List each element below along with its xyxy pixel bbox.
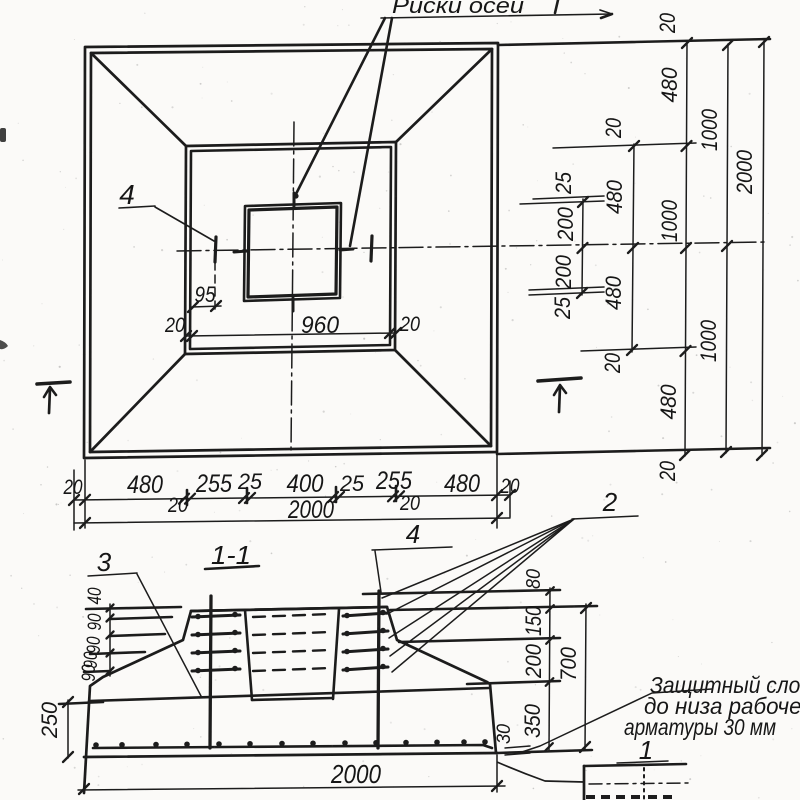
bottom chain ext left outer bbox=[73, 470, 75, 530]
svg-text:3: 3 bbox=[97, 547, 112, 577]
chain V1 ticks bbox=[578, 197, 588, 207]
detail 1 top line bbox=[584, 764, 686, 766]
svg-text:4: 4 bbox=[119, 179, 135, 210]
rebar row left 3 bbox=[192, 651, 240, 653]
label 2 underline bbox=[572, 516, 638, 519]
leader to top axis tick bbox=[296, 18, 385, 194]
plan diagonal top-left bbox=[91, 53, 186, 146]
svg-text:20: 20 bbox=[655, 12, 680, 33]
svg-text:4: 4 bbox=[406, 519, 420, 549]
plan diagonal bottom-left bbox=[90, 354, 185, 452]
anchor box right tick bbox=[340, 249, 353, 250]
label 2 leader 1 bbox=[382, 519, 574, 598]
rebar vertical left bbox=[210, 596, 211, 748]
svg-text:150: 150 bbox=[521, 605, 546, 636]
rebar row right 3 bbox=[343, 649, 388, 652]
ext pair y199 b bbox=[533, 196, 604, 199]
section arrow right stem bbox=[559, 386, 560, 412]
dim 95 line bbox=[192, 306, 221, 307]
svg-text:700: 700 bbox=[556, 646, 581, 681]
label 2 leader 4 bbox=[390, 519, 574, 656]
ext pair y199 a bbox=[520, 201, 604, 204]
ext line y351 bbox=[581, 347, 696, 351]
slab top line bbox=[89, 688, 489, 701]
scan speckle bbox=[510, 21, 511, 22]
svg-text:480: 480 bbox=[601, 275, 626, 310]
rebar row left 1 bbox=[192, 615, 240, 617]
edge artefact a bbox=[0, 128, 6, 142]
sec ext y609 bbox=[390, 606, 597, 610]
slab rebar line bbox=[93, 745, 492, 748]
dim 960 ticks bbox=[181, 331, 191, 341]
svg-text:480: 480 bbox=[127, 471, 163, 499]
dim 250 line bbox=[67, 700, 69, 758]
label 2 leader 3 bbox=[389, 519, 574, 638]
leader to right axis tick bbox=[350, 18, 392, 246]
section body top edge bbox=[191, 607, 387, 611]
axis mark right (4) bbox=[371, 236, 372, 261]
bottom chain ext right corner bbox=[496, 453, 498, 528]
detail 1 axis dash-dot bbox=[589, 783, 690, 784]
chain V1 line bbox=[582, 199, 583, 295]
svg-text:90: 90 bbox=[79, 664, 100, 681]
dim 960 line bbox=[186, 333, 396, 336]
section title underline bbox=[205, 566, 259, 569]
sec left ext 635 bbox=[110, 634, 165, 636]
sec dim 2000 ticks bbox=[79, 784, 89, 794]
svg-text:480: 480 bbox=[656, 384, 681, 420]
dim 95 ticks bbox=[188, 302, 198, 312]
note leader bbox=[519, 689, 712, 753]
anchor box bottom tick bbox=[292, 298, 295, 311]
label 2 leader 2 bbox=[387, 519, 574, 614]
chain V5 line bbox=[762, 41, 764, 456]
label 1 underline bbox=[617, 761, 668, 763]
plan inner square outer line bbox=[185, 142, 396, 354]
bottom chain short guide a bbox=[186, 490, 189, 505]
svg-text:95: 95 bbox=[195, 282, 217, 307]
svg-text:480: 480 bbox=[657, 67, 682, 103]
svg-text:350: 350 bbox=[520, 703, 545, 738]
sec chain V6 bbox=[549, 588, 550, 750]
svg-text:90: 90 bbox=[84, 636, 105, 653]
sec left chain line bbox=[109, 604, 111, 676]
svg-text:25: 25 bbox=[237, 469, 263, 494]
cup bottom bbox=[252, 698, 333, 700]
section arrow left head bbox=[44, 387, 56, 397]
plan vertical centerline bbox=[291, 122, 294, 452]
section arrow left bar bbox=[37, 382, 70, 384]
rebar row right 1 bbox=[343, 613, 388, 616]
svg-text:480: 480 bbox=[602, 179, 627, 214]
rebar row right 4 bbox=[343, 667, 388, 670]
cup dashed row 3 bbox=[253, 650, 331, 653]
dim 95 extension dashed bbox=[214, 262, 216, 312]
label 2 leader 5 bbox=[392, 519, 574, 672]
bottom chain ext right outer bbox=[509, 481, 511, 517]
bottom chain short guide d bbox=[395, 486, 398, 501]
section arrow right bar bbox=[538, 378, 581, 381]
svg-text:40: 40 bbox=[85, 587, 106, 604]
ext bottom edge right bbox=[497, 448, 770, 454]
svg-text:255: 255 bbox=[195, 470, 232, 498]
svg-text:400: 400 bbox=[287, 470, 324, 498]
plan outer square outer line bbox=[84, 43, 498, 458]
dim 30 tick b bbox=[505, 753, 530, 755]
sec left ext 608 bbox=[86, 607, 181, 609]
bottom chain dim line bbox=[74, 495, 510, 500]
cup dashed row 1 bbox=[253, 614, 331, 617]
ext line y146 bbox=[553, 143, 696, 148]
detail 1 left edge bbox=[583, 766, 586, 800]
edge artefact b bbox=[0, 340, 8, 349]
label 4 leader bbox=[155, 207, 214, 241]
svg-text:960: 960 bbox=[301, 312, 340, 339]
sec ext y591 bbox=[363, 590, 560, 594]
label 3 underline bbox=[88, 573, 137, 576]
bottom chain short guide b bbox=[246, 488, 249, 503]
svg-text:20: 20 bbox=[167, 494, 188, 517]
ext pair y293 b bbox=[529, 287, 604, 290]
sec left ext 618 bbox=[110, 617, 172, 619]
chain V4 line bbox=[726, 44, 728, 453]
label 4 section underline bbox=[372, 547, 452, 550]
svg-text:250: 250 bbox=[37, 701, 62, 739]
plan inner square inner line bbox=[190, 147, 391, 349]
sec left chain ticks bbox=[107, 605, 114, 612]
svg-text:2000: 2000 bbox=[330, 759, 381, 789]
plan diagonal bottom-right bbox=[395, 350, 491, 446]
sec V6 ticks bbox=[546, 587, 554, 595]
plan outer square inner line bbox=[90, 49, 492, 452]
svg-text:2000: 2000 bbox=[732, 149, 757, 195]
anchor box top tick bbox=[293, 193, 296, 206]
ext top edge right bbox=[498, 39, 770, 45]
label 4 underline bbox=[119, 206, 155, 208]
detail 1 dotted vertical bbox=[643, 768, 645, 800]
dim 2000 line plan bbox=[74, 518, 510, 523]
cup dashed row 2 bbox=[253, 632, 331, 635]
bottom chain ticks bbox=[69, 495, 79, 505]
svg-text:200: 200 bbox=[551, 254, 576, 290]
sec dim 2000 line bbox=[78, 786, 505, 790]
svg-text:2: 2 bbox=[602, 487, 618, 517]
sec V7 ticks bbox=[581, 603, 591, 613]
svg-text:25: 25 bbox=[551, 171, 576, 195]
rebar row right 2 bbox=[343, 631, 388, 634]
anchor box left tick bbox=[234, 251, 247, 252]
dim 250 ticks bbox=[63, 697, 73, 707]
plan diagonal top-right bbox=[396, 49, 492, 142]
svg-text:255: 255 bbox=[375, 467, 412, 495]
slab bottom line bbox=[84, 753, 497, 757]
detail 1 slab underside line bbox=[497, 762, 584, 782]
section arrow right head bbox=[554, 385, 566, 395]
svg-text:30: 30 bbox=[494, 724, 515, 744]
bottom chain short guide c bbox=[335, 487, 338, 502]
cup left wall bbox=[245, 610, 252, 700]
svg-text:200: 200 bbox=[521, 643, 546, 679]
rebar row left 4 bbox=[192, 669, 240, 671]
svg-text:480: 480 bbox=[444, 470, 480, 498]
svg-text:1000: 1000 bbox=[697, 108, 722, 151]
cup right wall bbox=[333, 609, 339, 699]
leader end dot bbox=[293, 193, 298, 198]
section arrow left stem bbox=[49, 388, 50, 413]
cup dashed row 4 bbox=[253, 668, 331, 671]
svg-text:25: 25 bbox=[550, 296, 575, 320]
svg-text:20: 20 bbox=[655, 460, 680, 481]
rebar row left 2 bbox=[192, 633, 240, 635]
svg-text:20: 20 bbox=[63, 476, 83, 499]
sec left ext 671 bbox=[84, 671, 110, 672]
bottom chain ext left corner bbox=[84, 460, 86, 528]
chain V5 ticks bbox=[759, 37, 769, 47]
leader underline with arrow bbox=[381, 14, 612, 18]
detail 1 hatch dashes bbox=[586, 795, 595, 799]
sec left ext 653 bbox=[90, 652, 145, 654]
svg-text:1: 1 bbox=[639, 735, 653, 765]
ext pair y293 a bbox=[529, 292, 604, 295]
axis mark left (4) bbox=[215, 237, 216, 262]
svg-text:80: 80 bbox=[523, 569, 545, 589]
svg-text:1000: 1000 bbox=[657, 199, 682, 242]
sec ext 2000 right bbox=[496, 755, 498, 792]
dim 2000 plan ticks bbox=[80, 518, 90, 528]
sec ext y640 bbox=[399, 638, 560, 642]
rebar vertical right bbox=[378, 591, 379, 748]
sec chain V7 bbox=[585, 604, 586, 750]
slab bottom ext right bbox=[497, 750, 592, 753]
svg-text:20: 20 bbox=[164, 314, 185, 337]
sec ext y682 bbox=[467, 681, 560, 684]
anchor box inner thick line bbox=[248, 207, 337, 297]
section body outline bbox=[84, 607, 496, 793]
leader stroke at top bbox=[555, 0, 558, 13]
svg-text:20: 20 bbox=[500, 475, 520, 498]
label 4 section leader bbox=[375, 551, 381, 592]
chain V2 line bbox=[632, 144, 634, 352]
plan horizontal centerline bbox=[177, 242, 768, 251]
dim 30 tick a bbox=[505, 746, 530, 748]
svg-text:2000: 2000 bbox=[287, 496, 334, 524]
svg-text:20: 20 bbox=[600, 352, 625, 373]
svg-text:20: 20 bbox=[601, 117, 626, 138]
chain V3 line bbox=[685, 42, 687, 456]
svg-text:1000: 1000 bbox=[696, 319, 721, 362]
chain V3 ticks bbox=[682, 38, 692, 48]
svg-text:20: 20 bbox=[399, 313, 420, 336]
dim 250 ext bbox=[59, 702, 103, 704]
svg-text:20: 20 bbox=[399, 492, 420, 515]
svg-text:25: 25 bbox=[339, 471, 365, 496]
chain V2 ticks bbox=[629, 141, 639, 151]
chain V4 ticks bbox=[723, 40, 733, 50]
label 3 leader bbox=[137, 574, 201, 696]
slab rebar section dots bbox=[93, 742, 99, 748]
svg-text:90: 90 bbox=[85, 613, 106, 630]
svg-text:200: 200 bbox=[553, 206, 578, 242]
anchor box outer line bbox=[244, 203, 341, 301]
